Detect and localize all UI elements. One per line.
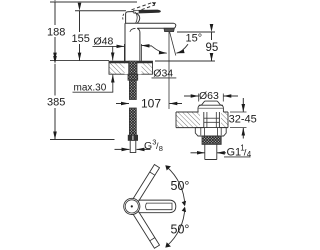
- faucet body and spout outline: [125, 23, 176, 61]
- hub / cartridge housing: [126, 12, 140, 24]
- pivot center dot: [131, 205, 133, 207]
- dimension 385: [54, 64, 56, 96]
- dimension texts on white: [45, 26, 220, 109]
- dimension 32-45: [230, 111, 247, 113]
- dimension 188: [54, 2, 56, 25]
- threaded shank in countertop: [129, 61, 137, 74]
- lever +50 position arm: [133, 165, 159, 202]
- threaded collar: [202, 136, 221, 144]
- svg-text:188: 188: [47, 27, 65, 39]
- svg-text:Ø48: Ø48: [94, 36, 114, 48]
- lever -50 position arm: [133, 211, 159, 248]
- baseline left (countertop level): [50, 60, 109, 62]
- locking nut: [195, 128, 226, 136]
- label G3/8: [144, 138, 163, 153]
- body inner contour: [130, 28, 136, 32]
- svg-text:15°: 15°: [186, 33, 203, 45]
- dimension 107: [116, 103, 129, 105]
- svg-text:50°: 50°: [171, 223, 190, 237]
- svg-text:4: 4: [247, 150, 252, 159]
- threaded rod: [129, 80, 136, 100]
- deck cross-section with hole: [176, 112, 228, 128]
- label G1 1/4: [227, 143, 252, 159]
- aerator: [164, 28, 174, 31]
- mounting nut under counter: [128, 74, 138, 80]
- G3/8 tube: [130, 140, 136, 152]
- hose connector: [128, 135, 137, 140]
- svg-text:385: 385: [47, 97, 65, 109]
- swing arc lower: [167, 208, 185, 246]
- dimension G3/8: [115, 148, 130, 150]
- svg-text:8: 8: [159, 144, 163, 153]
- flexible hose: [129, 108, 136, 135]
- extension line 155 top: [75, 10, 126, 12]
- countertop cross-section left view: [109, 61, 153, 74]
- angle arc 15 deg: [152, 46, 167, 53]
- svg-text:95: 95: [206, 42, 219, 54]
- pivot outer ring: [124, 198, 140, 214]
- dimension G1 1/4: [191, 152, 205, 154]
- dimension 155: [79, 11, 81, 32]
- svg-text:107: 107: [141, 97, 161, 111]
- drain cap: [198, 101, 223, 112]
- pivot inner circle: [125, 200, 138, 213]
- svg-text:G: G: [144, 140, 152, 152]
- lever front edge inside hub: [135, 12, 138, 24]
- base outer edges: [123, 44, 125, 61]
- lever straight position: [139, 200, 176, 213]
- svg-text:50°: 50°: [171, 179, 190, 193]
- dashed raised lever: [132, 2, 157, 11]
- lever swivel arcs at hub left: [123, 14, 124, 20]
- svg-text:32-45: 32-45: [229, 114, 257, 126]
- dimension 95: [211, 32, 213, 40]
- G1 1/4 tube: [205, 144, 217, 159]
- water stream vertical reference line: [168, 32, 170, 109]
- drain body through deck: [203, 112, 205, 128]
- extension line top (raised lever height): [50, 1, 137, 3]
- swing arc upper: [167, 167, 185, 205]
- svg-text:Ø63: Ø63: [199, 90, 219, 102]
- extension line 385 bottom: [50, 139, 115, 141]
- svg-text:155: 155: [72, 33, 90, 45]
- extension line 95 top: [177, 31, 215, 33]
- lever inner capsule: [146, 203, 172, 210]
- baseline right extension: [155, 60, 215, 62]
- lever handle: [133, 10, 160, 13]
- water stream 15 degree line: [170, 32, 176, 56]
